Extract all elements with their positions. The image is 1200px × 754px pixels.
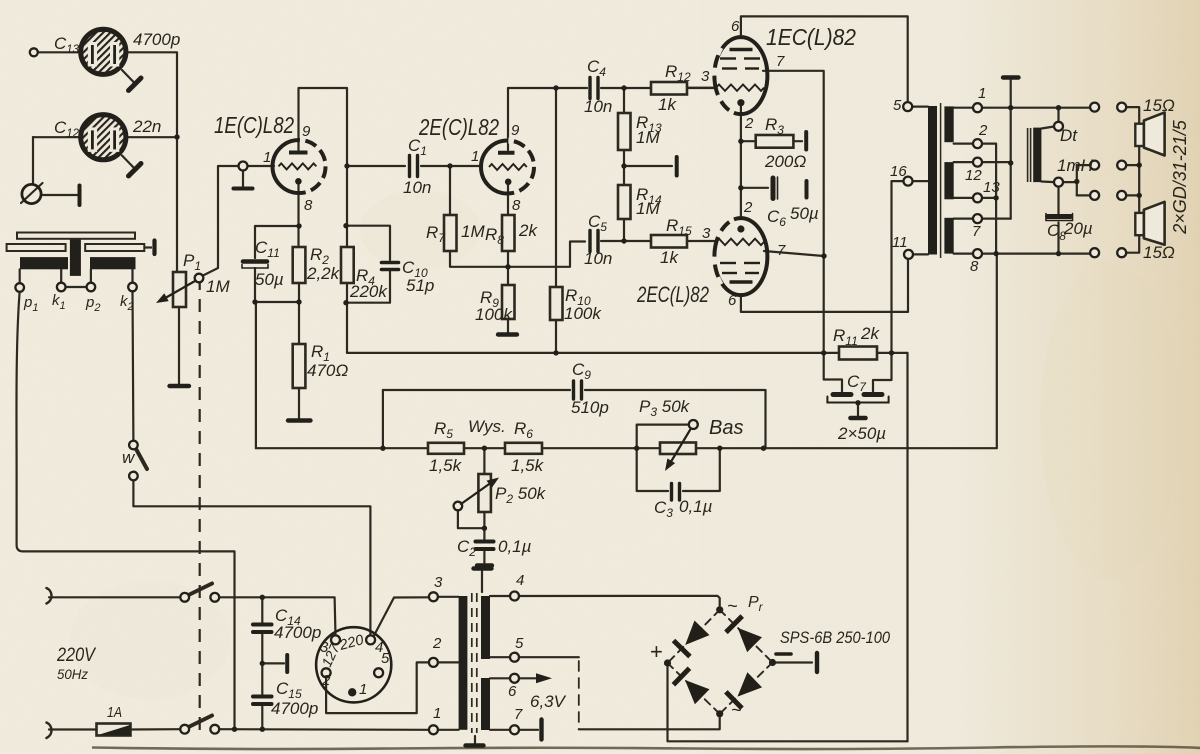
svg-text:2: 2 — [978, 122, 988, 139]
svg-text:2: 2 — [744, 115, 754, 132]
svg-text:P3 50k: P3 50k — [639, 397, 691, 419]
svg-text:1EC(L)82: 1EC(L)82 — [766, 24, 856, 50]
svg-text:1M: 1M — [461, 222, 485, 241]
svg-text:9: 9 — [511, 122, 520, 139]
svg-text:5: 5 — [381, 650, 390, 667]
svg-text:1: 1 — [471, 148, 479, 165]
svg-text:1: 1 — [978, 85, 986, 102]
svg-text:10n: 10n — [584, 249, 612, 268]
svg-text:220k: 220k — [349, 282, 388, 301]
svg-text:2,2k: 2,2k — [306, 264, 341, 283]
svg-text:4700p: 4700p — [274, 623, 321, 642]
svg-text:5: 5 — [515, 635, 524, 652]
svg-text:SPS-6B 250-100: SPS-6B 250-100 — [780, 628, 890, 647]
svg-text:2×50µ: 2×50µ — [837, 424, 886, 443]
svg-text:Dt: Dt — [1060, 126, 1078, 145]
svg-text:1,5k: 1,5k — [429, 456, 463, 475]
svg-text:15Ω: 15Ω — [1143, 243, 1175, 262]
svg-text:1M: 1M — [636, 199, 660, 218]
svg-text:100k: 100k — [475, 305, 513, 324]
svg-text:6: 6 — [728, 292, 737, 309]
svg-text:1A: 1A — [107, 704, 122, 721]
svg-text:7: 7 — [776, 53, 785, 70]
svg-text:6,3V: 6,3V — [530, 692, 567, 711]
svg-text:4700p: 4700p — [271, 699, 318, 718]
svg-text:~: ~ — [727, 596, 738, 616]
svg-text:2: 2 — [321, 672, 331, 689]
svg-text:Bas: Bas — [709, 417, 743, 439]
svg-text:3: 3 — [701, 68, 710, 85]
svg-text:5: 5 — [893, 97, 902, 114]
svg-text:1,5k: 1,5k — [511, 456, 545, 475]
svg-text:3: 3 — [702, 225, 711, 242]
svg-text:1: 1 — [433, 705, 441, 722]
svg-text:10n: 10n — [584, 97, 612, 116]
svg-text:Wys.: Wys. — [468, 417, 506, 436]
svg-text:4: 4 — [516, 572, 524, 589]
svg-text:470Ω: 470Ω — [307, 361, 348, 380]
svg-text:2×GD/31-21/5: 2×GD/31-21/5 — [1170, 119, 1190, 235]
svg-text:50µ: 50µ — [790, 204, 819, 223]
svg-text:4700p: 4700p — [133, 30, 180, 49]
svg-text:22n: 22n — [132, 117, 161, 136]
svg-text:2: 2 — [432, 635, 442, 652]
svg-text:100k: 100k — [564, 304, 602, 323]
svg-text:8: 8 — [512, 197, 521, 214]
svg-text:7: 7 — [777, 242, 786, 259]
svg-text:200Ω: 200Ω — [764, 152, 806, 171]
svg-text:51p: 51p — [406, 276, 434, 295]
svg-text:2E(C)L82: 2E(C)L82 — [418, 114, 499, 140]
svg-text:1k: 1k — [660, 248, 679, 267]
svg-text:1k: 1k — [658, 95, 677, 114]
svg-text:2EC(L)82: 2EC(L)82 — [636, 282, 709, 307]
svg-text:3: 3 — [434, 574, 443, 591]
svg-text:2k: 2k — [860, 324, 880, 343]
svg-text:50µ: 50µ — [255, 270, 284, 289]
svg-text:16: 16 — [890, 163, 907, 180]
svg-text:9: 9 — [302, 123, 311, 140]
svg-text:15Ω: 15Ω — [1143, 96, 1175, 115]
svg-text:1mH: 1mH — [1057, 156, 1094, 175]
svg-text:w: w — [122, 448, 136, 467]
svg-text:12: 12 — [965, 167, 982, 184]
svg-text:50Hz: 50Hz — [57, 666, 88, 682]
svg-text:10n: 10n — [403, 178, 431, 197]
svg-text:1E(C)L82: 1E(C)L82 — [214, 112, 294, 138]
svg-text:6: 6 — [508, 683, 517, 700]
svg-text:7: 7 — [972, 223, 981, 240]
svg-text:220V: 220V — [56, 645, 97, 666]
svg-text:8: 8 — [304, 197, 313, 214]
svg-text:13: 13 — [983, 179, 1000, 196]
svg-text:8: 8 — [970, 258, 979, 275]
svg-text:2k: 2k — [518, 221, 538, 240]
svg-text:0,1µ: 0,1µ — [498, 537, 532, 556]
svg-text:2: 2 — [743, 199, 753, 216]
svg-text:1M: 1M — [206, 277, 230, 296]
svg-text:0,1µ: 0,1µ — [679, 497, 713, 516]
svg-text:1: 1 — [263, 149, 271, 166]
svg-text:6: 6 — [731, 18, 740, 35]
svg-text:+: + — [650, 639, 663, 664]
svg-text:510p: 510p — [571, 398, 609, 417]
svg-text:~: ~ — [731, 700, 742, 720]
svg-text:11: 11 — [892, 234, 908, 251]
svg-text:7: 7 — [514, 706, 523, 723]
svg-text:20µ: 20µ — [1063, 219, 1093, 238]
svg-text:1: 1 — [359, 681, 367, 698]
svg-text:1M: 1M — [636, 128, 660, 147]
svg-text:P2 50k: P2 50k — [495, 484, 547, 506]
